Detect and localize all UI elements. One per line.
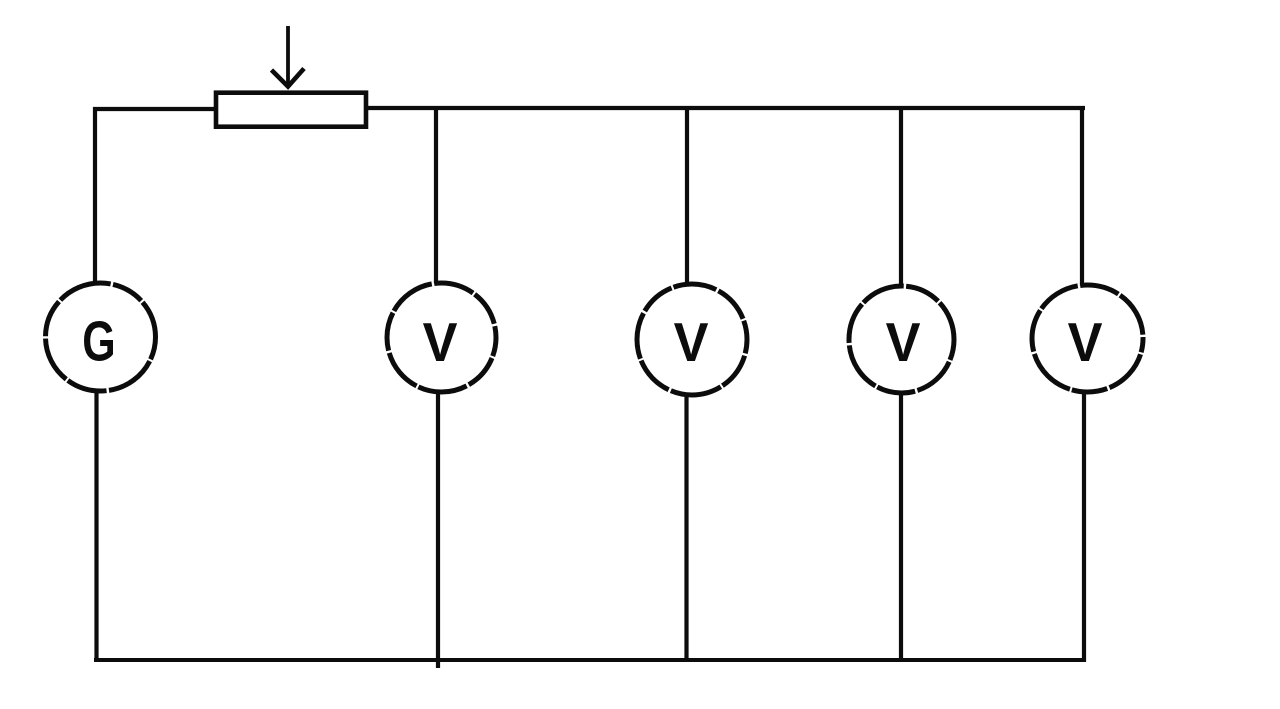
svg-text:V: V <box>423 312 458 374</box>
voltmeter V4 circle <box>1032 285 1143 392</box>
wire: vertical drop to voltmeter V1 top <box>434 106 438 285</box>
wire: vertical drop to voltmeter V3 top <box>899 106 903 288</box>
rheostat wiper arrow <box>272 26 305 87</box>
svg-text:V: V <box>886 312 921 374</box>
voltmeter V2 circle <box>637 284 747 395</box>
wire: vertical drop to voltmeter V2 top <box>685 106 689 287</box>
galvanometer G circle <box>46 283 156 391</box>
svg-text:G: G <box>82 310 115 373</box>
rheostat body <box>216 93 366 127</box>
svg-text:V: V <box>1068 312 1103 374</box>
wire: top horizontal bus from rheostat to right end <box>366 106 1085 110</box>
wire: vertical from voltmeter V3 bottom to bottom bus <box>899 392 903 662</box>
wire: bottom horizontal bus <box>94 658 1085 662</box>
wire: left horizontal from left corner to rheostat left terminal <box>93 107 217 111</box>
voltmeter V1 circle <box>387 283 496 392</box>
wire: vertical from voltmeter V1 bottom to bottom bus (tick extends below) <box>436 391 440 668</box>
wire: vertical from voltmeter V2 bottom to bottom bus <box>684 394 688 662</box>
wire: vertical from galvanometer bottom to bottom bus <box>94 390 98 662</box>
svg-text:V: V <box>674 312 709 374</box>
wire: vertical from voltmeter V4 bottom to bottom bus <box>1082 391 1086 662</box>
wire: vertical drop to voltmeter V4 top <box>1080 106 1084 287</box>
wire: left vertical from corner down to galvanometer top <box>93 107 97 284</box>
voltmeter V3 circle <box>849 286 954 393</box>
